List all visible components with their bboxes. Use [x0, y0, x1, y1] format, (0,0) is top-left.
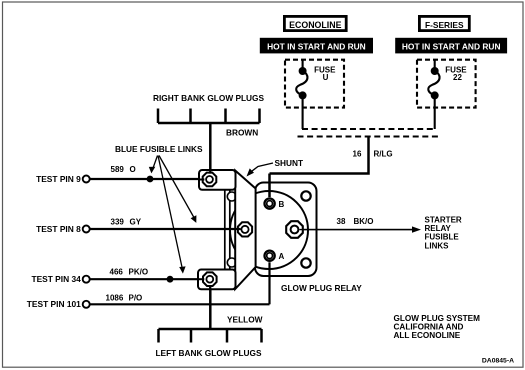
svg-text:F-SERIES: F-SERIES — [425, 20, 464, 30]
svg-text:SHUNT: SHUNT — [275, 158, 304, 168]
svg-text:589: 589 — [111, 165, 125, 174]
svg-text:YELLOW: YELLOW — [227, 315, 263, 325]
svg-text:FUSIBLE: FUSIBLE — [425, 233, 460, 242]
svg-text:BROWN: BROWN — [226, 128, 258, 138]
svg-text:1086: 1086 — [106, 294, 124, 303]
svg-text:TEST PIN 101: TEST PIN 101 — [27, 299, 81, 309]
svg-text:TEST PIN 8: TEST PIN 8 — [36, 224, 81, 234]
svg-text:HOT IN START AND RUN: HOT IN START AND RUN — [267, 41, 366, 51]
svg-text:ALL ECONOLINE: ALL ECONOLINE — [394, 331, 461, 340]
svg-text:CALIFORNIA AND: CALIFORNIA AND — [394, 322, 464, 331]
svg-text:LEFT BANK GLOW PLUGS: LEFT BANK GLOW PLUGS — [155, 348, 261, 358]
svg-text:339: 339 — [111, 218, 125, 227]
svg-text:GY: GY — [130, 218, 142, 227]
svg-text:A: A — [279, 252, 285, 261]
svg-text:U: U — [323, 73, 329, 82]
svg-text:P/O: P/O — [129, 294, 143, 303]
svg-text:TEST PIN 34: TEST PIN 34 — [31, 274, 81, 284]
svg-text:22: 22 — [453, 73, 462, 82]
svg-text:BK/O: BK/O — [354, 217, 374, 226]
svg-text:STARTER: STARTER — [425, 215, 462, 224]
svg-text:466: 466 — [110, 268, 124, 277]
svg-text:LINKS: LINKS — [425, 241, 450, 250]
svg-text:HOT IN START AND RUN: HOT IN START AND RUN — [402, 41, 501, 51]
svg-text:16: 16 — [353, 150, 362, 159]
svg-text:38: 38 — [337, 217, 346, 226]
svg-text:PK/O: PK/O — [129, 268, 149, 277]
svg-text:R/LG: R/LG — [374, 150, 393, 159]
svg-text:ECONOLINE: ECONOLINE — [289, 20, 341, 30]
svg-text:B: B — [279, 200, 285, 209]
svg-text:BLUE FUSIBLE LINKS: BLUE FUSIBLE LINKS — [115, 144, 203, 154]
svg-text:GLOW PLUG RELAY: GLOW PLUG RELAY — [281, 283, 362, 293]
svg-text:O: O — [130, 165, 136, 174]
svg-text:RIGHT BANK GLOW PLUGS: RIGHT BANK GLOW PLUGS — [153, 93, 265, 103]
svg-text:DA0845-A: DA0845-A — [482, 358, 514, 365]
svg-text:TEST PIN 9: TEST PIN 9 — [36, 174, 81, 184]
